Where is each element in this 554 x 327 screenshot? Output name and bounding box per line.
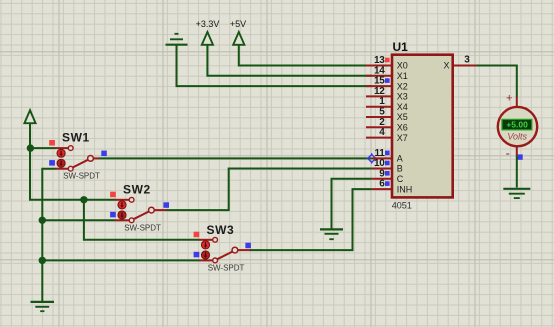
- svg-text:4: 4: [379, 127, 385, 138]
- wire branch to SW3 bottom: [42, 259, 199, 261]
- multiplexer IC U1 (4051): [366, 40, 477, 210]
- svg-text:INH: INH: [397, 184, 413, 194]
- wire pin C to ground: [332, 179, 372, 229]
- SW3 logic marker blue right: [245, 243, 251, 249]
- SW2 logic marker red: [110, 192, 116, 198]
- svg-text:+5V: +5V: [230, 19, 246, 29]
- SW1 pin stubs: [55, 148, 99, 169]
- U1 pin numbers: [374, 55, 470, 190]
- switch SW3: [194, 223, 251, 273]
- wire SW1 pole to pin A (node A): [99, 157, 372, 159]
- wire SW2 pole to pin B (node B): [166, 169, 372, 211]
- wire SW3 pole to pin INH: [250, 189, 372, 250]
- svg-text:SW2: SW2: [123, 182, 151, 196]
- wire voltmeter to ground: [516, 156, 518, 188]
- SW1 toggle buttons: [57, 149, 65, 157]
- svg-text:X: X: [443, 61, 449, 71]
- svg-text:X0: X0: [397, 61, 408, 71]
- svg-text:4051: 4051: [392, 201, 412, 211]
- power arrow (left bus): [24, 110, 35, 123]
- voltage probe marker (node A): [366, 153, 377, 164]
- SW3 logic marker red: [194, 232, 200, 238]
- junction dot: [39, 217, 46, 224]
- svg-text:X7: X7: [397, 133, 408, 143]
- U1 pin stubs left: [366, 66, 393, 190]
- junction dot: [39, 257, 46, 264]
- U1 pin stub right (pin 3): [452, 65, 477, 67]
- wire power bus down and right to SW2 top: [30, 124, 116, 200]
- ground (bottom left): [31, 302, 55, 311]
- svg-text:U1: U1: [393, 40, 409, 54]
- SW1 logic marker blue right: [101, 151, 107, 157]
- svg-text:A: A: [397, 154, 403, 164]
- wire pin 3 (X) to voltmeter: [477, 66, 517, 98]
- SW1 logic marker red: [49, 140, 55, 146]
- wire branch to SW1 top: [30, 147, 56, 149]
- svg-text:SW-SPDT: SW-SPDT: [63, 172, 100, 181]
- svg-text:+5.00: +5.00: [506, 120, 528, 130]
- wire branch to SW2 bottom: [42, 219, 115, 221]
- SW2 logic marker blue right: [164, 202, 170, 208]
- wire +5V to X0: [239, 45, 372, 65]
- SW3 logic marker blue left: [194, 252, 200, 257]
- ground (middle, pin C): [320, 229, 343, 239]
- SW2 logic marker blue left: [110, 212, 116, 218]
- svg-text:6: 6: [379, 179, 385, 190]
- U1 pin names: [397, 61, 450, 195]
- voltmeter body: [498, 107, 537, 146]
- switch SW1: [49, 131, 107, 181]
- U1 pin logic markers: [385, 58, 390, 63]
- svg-text:Volts: Volts: [507, 131, 527, 141]
- SW3 contacts: [213, 237, 218, 242]
- power +3.3V: [196, 19, 220, 45]
- svg-text:3: 3: [464, 55, 470, 66]
- svg-text:X4: X4: [397, 102, 408, 112]
- switch SW2: [110, 182, 169, 232]
- SW2 contacts: [129, 197, 134, 202]
- wire +3.3V to X1: [207, 45, 372, 76]
- SW2 toggle buttons: [118, 201, 126, 209]
- svg-text:+: +: [506, 93, 512, 105]
- svg-text:SW1: SW1: [62, 131, 90, 145]
- wire top ground to X2: [177, 45, 372, 86]
- voltmeter: [498, 93, 537, 161]
- svg-text:X2: X2: [397, 81, 408, 91]
- wire SW1 bottom to ground bus: [42, 169, 55, 302]
- svg-text:SW-SPDT: SW-SPDT: [208, 263, 245, 272]
- svg-text:X1: X1: [397, 71, 408, 81]
- svg-text:-: -: [506, 146, 510, 161]
- svg-text:B: B: [397, 164, 403, 174]
- wire branch down to SW3 top: [84, 200, 200, 240]
- svg-text:X6: X6: [397, 123, 408, 133]
- svg-text:X3: X3: [397, 92, 408, 102]
- U1 body: [392, 55, 453, 198]
- svg-text:C: C: [397, 174, 404, 184]
- svg-text:X5: X5: [397, 112, 408, 122]
- SW1 logic marker blue left: [49, 160, 55, 166]
- SW3 pin stubs: [199, 240, 251, 261]
- svg-text:SW-SPDT: SW-SPDT: [124, 223, 161, 232]
- power +5V: [230, 19, 246, 45]
- voltmeter LCD display +5.00: [502, 119, 532, 129]
- SW3 toggle buttons: [201, 241, 209, 249]
- svg-text:SW3: SW3: [207, 223, 235, 237]
- ground (voltmeter): [503, 189, 530, 198]
- svg-text:+3.3V: +3.3V: [196, 19, 220, 29]
- SW1 contacts: [68, 146, 73, 151]
- ground (top, inverted): [166, 34, 188, 45]
- junction dot: [27, 144, 34, 151]
- SW2 pin stubs: [115, 200, 167, 221]
- voltmeter logic marker blue: [517, 154, 522, 159]
- junction dot: [80, 196, 87, 203]
